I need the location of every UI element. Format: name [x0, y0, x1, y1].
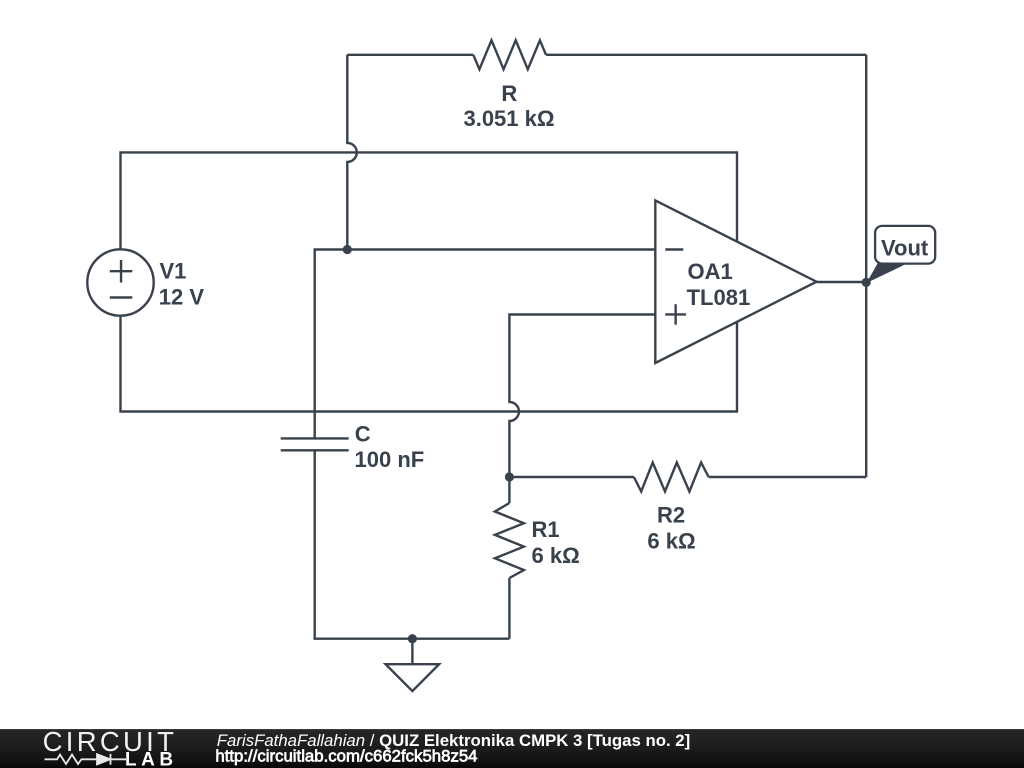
resistor R1 — [495, 503, 524, 578]
wire R to top-right corner — [546, 54, 866, 56]
svg-text:http://circuitlab.com/c662fck5: http://circuitlab.com/c662fck5h8z54 — [215, 747, 477, 766]
svg-text:R: R — [501, 81, 517, 106]
capacitor C plates — [281, 438, 349, 450]
wire R1 bottom lead — [508, 578, 510, 639]
svg-text:R1: R1 — [532, 517, 560, 542]
footer bar — [0, 729, 1024, 768]
wire feedback vertical with hop over row y=152 — [347, 55, 357, 250]
wire right vertical (output net) — [865, 55, 867, 477]
CircuitLab logo text — [43, 726, 178, 757]
wire R1 top lead — [508, 477, 510, 503]
voltage source V1 — [87, 249, 153, 315]
wire top-left lead to R — [347, 54, 473, 56]
svg-text:6 kΩ: 6 kΩ — [532, 543, 580, 568]
svg-text:LAB: LAB — [125, 749, 178, 768]
resistor R2 — [634, 463, 709, 492]
op-amp OA1 — [655, 200, 816, 363]
wire R2 right lead — [709, 476, 867, 478]
svg-text:100 nF: 100 nF — [355, 447, 425, 472]
wire capacitor bottom to ground row — [315, 450, 510, 638]
node ground junction — [408, 634, 417, 643]
wire node to capacitor top — [315, 250, 348, 439]
footer url — [215, 747, 477, 766]
net flag Vout tail — [867, 264, 906, 284]
svg-text:Vout: Vout — [881, 235, 929, 260]
net flag Vout box — [875, 226, 935, 264]
svg-text:R2: R2 — [657, 503, 685, 528]
svg-text:C: C — [355, 422, 371, 447]
svg-text:3.051 kΩ: 3.051 kΩ — [463, 106, 554, 131]
CircuitLab logo LAB — [125, 749, 178, 768]
svg-text:OA1: OA1 — [688, 259, 733, 284]
node Vout junction — [862, 278, 871, 287]
svg-text:12 V: 12 V — [159, 284, 205, 309]
resistor R — [473, 40, 546, 69]
svg-text:V1: V1 — [160, 259, 187, 284]
CircuitLab logo resistor-diode glyph — [45, 754, 127, 765]
svg-text:6 kΩ: 6 kΩ — [647, 528, 695, 553]
footer title — [217, 731, 690, 750]
ground — [386, 639, 440, 691]
wire inverting input row — [347, 248, 655, 250]
svg-text:TL081: TL081 — [687, 285, 751, 310]
wire R2 left lead — [509, 476, 634, 478]
wire op-amp output — [817, 281, 867, 283]
node non-inverting junction — [505, 472, 514, 481]
node inverting junction — [343, 245, 352, 254]
wire V1 loop (top row, right side x=737, bottom row) — [121, 152, 738, 411]
wire non-inverting input with hop over row y=411.5 — [509, 315, 655, 478]
